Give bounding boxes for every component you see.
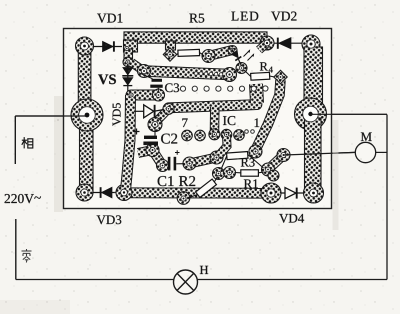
lamp H: [174, 270, 198, 294]
resistor R3: [221, 152, 264, 170]
motor M: [355, 142, 375, 162]
pad hole whites: [79, 40, 319, 201]
free hole row: [180, 86, 268, 133]
capacitor C1: [165, 150, 185, 170]
diode VD5: [134, 105, 164, 118]
resistor R1: [235, 170, 264, 176]
wire board to motor: [284, 152, 355, 155]
label ling (neutral) hand drawn: [22, 249, 32, 263]
label C3: [165, 83, 179, 92]
label R2: [179, 176, 195, 186]
resistor R2: [188, 177, 218, 199]
label C1: [158, 176, 174, 186]
trace node B strip (VS to R4 pad): [132, 63, 237, 82]
trace right column: [295, 35, 327, 203]
label VD2: [271, 12, 296, 21]
label M: [361, 132, 372, 141]
label C2: [161, 134, 177, 144]
thyristor VS: [122, 64, 133, 91]
label VD3: [97, 215, 122, 224]
resistor R4: [244, 70, 275, 80]
pads R2 R1 junction: [213, 167, 236, 180]
label VD1: [97, 14, 122, 23]
LED: [231, 50, 253, 66]
label VD4: [279, 214, 304, 223]
label R1: [244, 179, 258, 188]
label VD5: [113, 103, 121, 126]
label R3: [241, 158, 255, 166]
trace top rail: [123, 32, 274, 67]
capacitor C3: [139, 73, 163, 92]
trace mid horizontal: [163, 84, 257, 131]
wire bottom neutral: [16, 279, 387, 281]
trace cluster C2/C1: [138, 109, 223, 172]
label ~: [34, 196, 41, 198]
trace IC pad to R3 node: [219, 135, 228, 156]
trace bottom rail: [116, 183, 281, 204]
wire phase terminal: [14, 116, 16, 164]
PCB board outline: [64, 29, 332, 209]
wire overlays crossing pads: [15, 114, 387, 155]
label LED: [231, 12, 258, 21]
wire neutral terminal: [15, 219, 17, 280]
wire motor to right: [376, 151, 387, 153]
label VS: [98, 74, 116, 84]
trace left column: [71, 37, 103, 201]
label R5: [189, 14, 204, 23]
label R: [260, 62, 268, 70]
wire right side: [386, 115, 388, 280]
diode VD4: [281, 188, 303, 199]
trace VD2 pad arm: [259, 43, 267, 50]
diode VD1: [94, 41, 123, 51]
shading smudge left of PCB: [54, 96, 63, 212]
pad hole dots: [83, 42, 315, 200]
label H: [200, 266, 208, 274]
label 1: [255, 118, 260, 127]
trace arm under VS: [131, 89, 165, 101]
label IC: [223, 116, 235, 125]
label 7: [182, 118, 187, 127]
label 4: [269, 67, 273, 73]
IC pads: [182, 129, 245, 141]
diode VD3: [93, 187, 116, 198]
trace motor node arm: [262, 149, 291, 182]
capacitor C2: [134, 128, 159, 148]
wire 220V phase input to board: [15, 115, 86, 117]
holes inside node B strip: [194, 72, 222, 76]
wire board to motor top: [311, 113, 388, 115]
diode VD2: [274, 38, 303, 49]
trace R5 pad to LED: [202, 46, 247, 74]
trace left branch down: [126, 95, 131, 190]
trace diamond R4 to pin1: [249, 70, 287, 158]
resistor R5: [177, 49, 203, 56]
label 220V: [5, 194, 34, 203]
label xiang (phase) hand drawn: [22, 137, 33, 148]
